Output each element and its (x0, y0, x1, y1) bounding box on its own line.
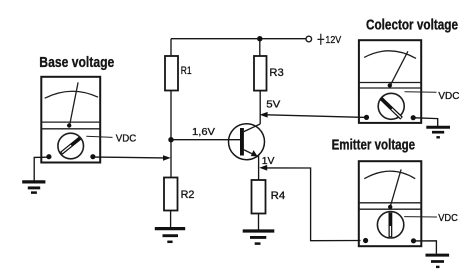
svg-text:R2: R2 (181, 189, 195, 201)
svg-text:1V: 1V (262, 155, 275, 167)
svg-text:5V: 5V (266, 99, 280, 111)
svg-text:1,6V: 1,6V (192, 126, 215, 138)
svg-text:Emitter voltage: Emitter voltage (332, 137, 416, 153)
svg-text:12V: 12V (325, 35, 341, 46)
svg-text:Colector voltage: Colector voltage (366, 18, 458, 34)
svg-text:R1: R1 (181, 65, 192, 77)
svg-text:R3: R3 (269, 67, 283, 79)
svg-text:VDC: VDC (116, 133, 137, 144)
svg-text:VDC: VDC (438, 91, 460, 102)
svg-text:Base voltage: Base voltage (39, 55, 114, 71)
svg-text:VDC: VDC (438, 213, 458, 224)
svg-text:R4: R4 (271, 190, 286, 202)
